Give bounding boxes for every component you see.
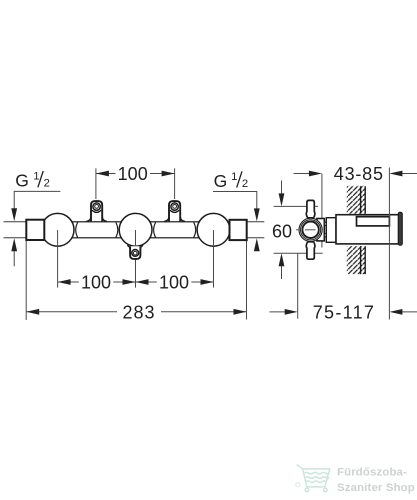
handle ring second [301, 220, 321, 240]
left valve circle [41, 213, 74, 246]
handle ring inner [302, 222, 318, 238]
cart wave 1 [305, 472, 330, 474]
svg-text:75-117: 75-117 [313, 303, 376, 323]
right G1/2 end box [230, 220, 247, 240]
centerline dashes [296, 229, 301, 231]
middle valve circle [119, 213, 152, 246]
extension stub line left top [4, 221, 27, 223]
bottom outlet fitting [127, 245, 143, 259]
backplate tab upper [324, 222, 327, 225]
inner sleeve rect [357, 217, 390, 226]
collar [326, 218, 336, 243]
extension line 60 upper [274, 205, 318, 207]
extension line 43-85 and 75-117 right [388, 168, 390, 320]
extension line top 100 right fitting [174, 168, 176, 199]
svg-text:43-85: 43-85 [334, 164, 384, 184]
extension line 75-117 left [297, 253, 299, 318]
extension line 60 lower [274, 252, 323, 254]
svg-text:60: 60 [272, 221, 292, 241]
cart wheel right [324, 488, 328, 492]
fillet left of middle circle [116, 222, 118, 237]
dimension 43-85 [294, 164, 417, 184]
leader G1/2 right [213, 192, 257, 212]
handle dot [296, 483, 300, 487]
svg-text:G: G [15, 170, 29, 190]
dimension top 100 [96, 164, 175, 184]
handle lower wing [306, 242, 315, 259]
cart basket [303, 469, 330, 487]
extension line bottom 100 right circle [213, 230, 215, 288]
cart handle [297, 464, 303, 469]
svg-text:100: 100 [81, 273, 111, 293]
fillet right of left circle [76, 222, 78, 237]
arrow up to tube bottom right [256, 249, 258, 251]
extension stub line right top [247, 221, 265, 223]
fillet left of right circle [194, 222, 196, 237]
right valve circle [197, 213, 230, 246]
top outlet fitting 2 [164, 201, 185, 221]
cart wheel left [305, 488, 309, 492]
dimension 75-117 [270, 303, 417, 323]
dimension bottom 100 right [136, 273, 214, 293]
svg-text:1: 1 [231, 171, 237, 183]
backplate [317, 219, 324, 241]
handle ring outer [299, 218, 322, 241]
dimension 283 [26, 303, 246, 323]
dimension 60 [272, 181, 292, 280]
fillet right of middle circle [154, 222, 156, 237]
top outlet fitting 1 [86, 201, 107, 221]
extension line bottom 100 left circle [57, 230, 59, 288]
cart wave 3 [306, 481, 326, 483]
handle upper wing [306, 200, 315, 217]
cart wave 2 [305, 477, 329, 479]
extension line 43-85 left [321, 174, 323, 248]
end flange [398, 212, 402, 245]
dimension bottom 100 left [58, 273, 136, 293]
leader G1/2 left [14, 191, 60, 211]
svg-text:2: 2 [44, 177, 50, 189]
svg-text:Fürdőszoba-: Fürdőszoba- [337, 467, 407, 479]
wall hatch lower [347, 246, 366, 274]
svg-text:283: 283 [122, 303, 155, 323]
extension line bottom 100 middle circle [135, 230, 137, 288]
extension line for 283 right [246, 240, 248, 319]
arrow up to tube bottom left [13, 249, 15, 267]
extension stub line left bottom [4, 237, 27, 239]
svg-text:100: 100 [118, 164, 148, 184]
svg-text:1: 1 [33, 171, 39, 183]
svg-text:100: 100 [159, 273, 189, 293]
svg-text:G: G [214, 171, 228, 191]
wall hatch upper [347, 186, 366, 214]
main body [336, 215, 399, 244]
backplate tab lower [324, 234, 327, 237]
extension stub line right bottom [247, 237, 265, 239]
extension line top 100 left fitting [95, 168, 97, 199]
svg-text:Szaniter Shop: Szaniter Shop [337, 482, 415, 494]
extension line for 283 left [25, 240, 27, 320]
svg-text:2: 2 [242, 178, 248, 190]
tube body [26, 222, 246, 238]
left G1/2 end box [26, 220, 44, 240]
